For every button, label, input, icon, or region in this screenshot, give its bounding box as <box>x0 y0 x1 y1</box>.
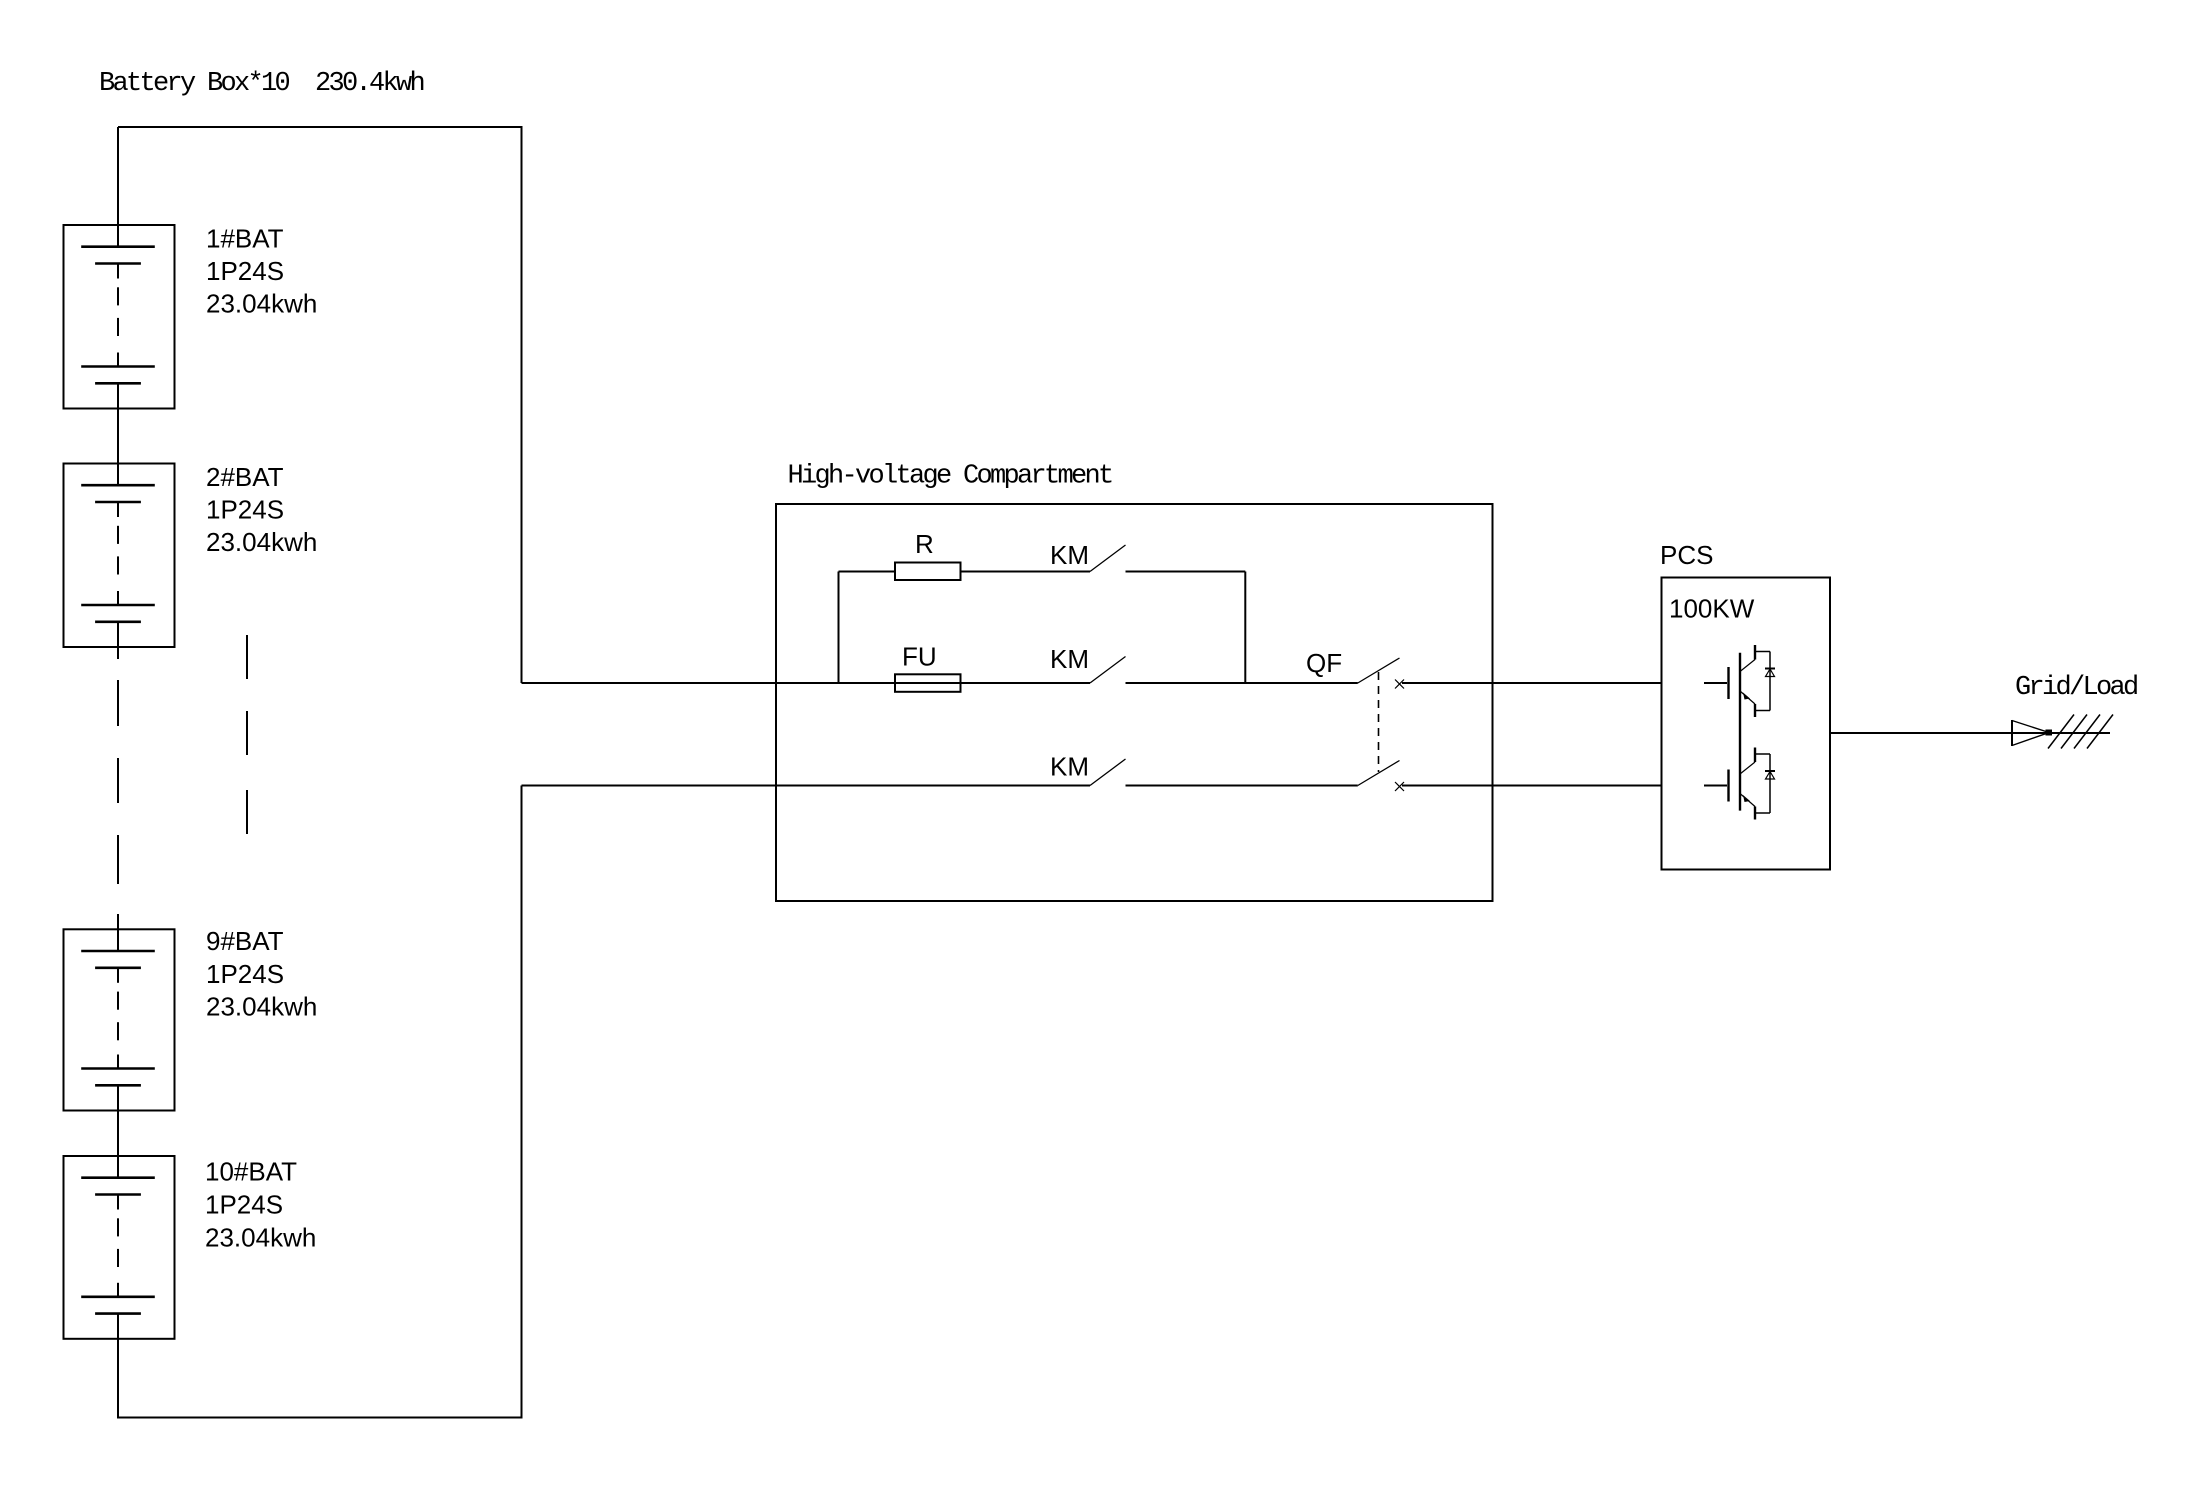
svg-text:Battery Box*10 230.4kwh: Battery Box*10 230.4kwh <box>99 69 424 99</box>
svg-text:QF: QF <box>1306 648 1342 678</box>
svg-text:10#BAT: 10#BAT <box>205 1157 297 1187</box>
svg-text:9#BAT: 9#BAT <box>206 926 284 956</box>
svg-text:1P24S: 1P24S <box>206 256 284 286</box>
svg-text:1P24S: 1P24S <box>205 1190 283 1220</box>
svg-text:1P24S: 1P24S <box>206 495 284 525</box>
svg-text:23.04kwh: 23.04kwh <box>205 1223 316 1253</box>
svg-text:High-voltage Compartment: High-voltage Compartment <box>788 462 1113 492</box>
svg-text:1P24S: 1P24S <box>206 959 284 989</box>
svg-text:Grid/Load: Grid/Load <box>2015 673 2137 703</box>
svg-text:KM: KM <box>1050 752 1089 782</box>
svg-text:23.04kwh: 23.04kwh <box>206 289 317 319</box>
svg-text:PCS: PCS <box>1660 540 1713 570</box>
svg-text:KM: KM <box>1050 644 1089 674</box>
svg-text:23.04kwh: 23.04kwh <box>206 527 317 557</box>
svg-text:2#BAT: 2#BAT <box>206 462 284 492</box>
svg-text:1#BAT: 1#BAT <box>206 224 284 254</box>
svg-text:KM: KM <box>1050 540 1089 570</box>
svg-text:23.04kwh: 23.04kwh <box>206 992 317 1022</box>
svg-text:FU: FU <box>902 642 937 672</box>
svg-text:100KW: 100KW <box>1669 594 1755 624</box>
svg-text:R: R <box>915 529 934 559</box>
